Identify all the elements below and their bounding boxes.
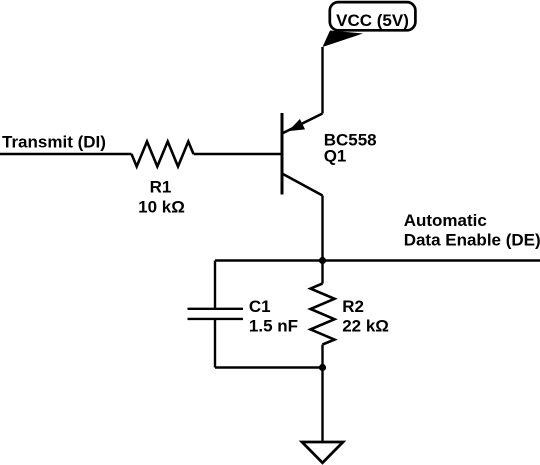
wire: Automatic Data Enable (DE) horizontal: [215, 259, 540, 261]
wire: ground node to ground symbol: [321, 368, 323, 442]
wire: C1 bottom to bottom rail: [214, 319, 216, 368]
capacitor C1 bottom plate: [188, 318, 244, 320]
svg-text:R2: R2: [342, 297, 364, 316]
ground: [302, 442, 343, 463]
node: DE junction dot: [319, 257, 326, 264]
wire: R1 to Q1 base: [194, 153, 283, 155]
svg-text:Q1: Q1: [324, 147, 347, 166]
svg-text:R1: R1: [150, 178, 172, 197]
svg-text:Automatic: Automatic: [404, 211, 487, 230]
wire: Transmit (DI) input to R1: [0, 153, 132, 155]
node: ground junction dot: [319, 364, 326, 371]
wire: bottom rail C1 to ground node: [215, 366, 323, 368]
wire: DE node down to C1 top: [214, 261, 216, 309]
capacitor C1 top plate: [188, 308, 244, 310]
svg-text:1.5 nF: 1.5 nF: [249, 317, 298, 336]
svg-text:22 kΩ: 22 kΩ: [342, 317, 389, 336]
transistor Q1 emitter segment: [282, 114, 323, 134]
wire: collector down to DE node: [321, 196, 323, 261]
svg-text:VCC (5V): VCC (5V): [336, 11, 409, 30]
wire: emitter to VCC: [321, 47, 323, 114]
svg-text:Transmit (DI): Transmit (DI): [2, 133, 106, 152]
wire: DE node to R2 top: [321, 261, 323, 284]
svg-text:Data Enable (DE): Data Enable (DE): [404, 231, 540, 250]
transistor Q1 collector segment: [282, 174, 323, 196]
VCC callout pointer: [323, 31, 364, 48]
resistor R2: [311, 284, 335, 345]
svg-text:10 kΩ: 10 kΩ: [138, 198, 185, 217]
resistor R1: [132, 142, 194, 167]
VCC (5V) supply box: [330, 2, 416, 30]
wire: R2 bottom to ground node: [321, 345, 323, 368]
transistor Q1 emitter arrow (PNP, pointing to base): [290, 120, 305, 131]
svg-text:C1: C1: [249, 297, 271, 316]
transistor Q1 base bar: [281, 113, 284, 195]
